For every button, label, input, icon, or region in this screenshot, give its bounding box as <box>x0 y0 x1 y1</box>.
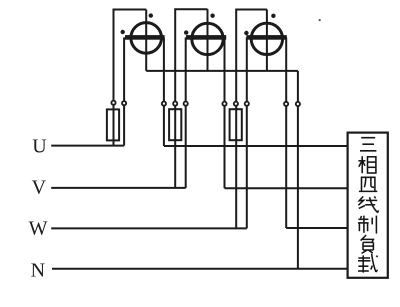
wire: neutral bus joining voltage coils of M1 M2 M3 <box>146 70 298 72</box>
wire: M2 bar left tap down through terminal b3 to V line <box>185 37 187 188</box>
wire: hairpin into meter M1 top (from terminal a1) <box>114 10 147 102</box>
svg-text:U: U <box>32 136 47 158</box>
terminal a2 <box>122 101 126 105</box>
wire: V output line to load box <box>225 187 348 189</box>
load box outline <box>348 133 388 278</box>
wire: W phase line from label to fuse FU3 and terminal c3 <box>51 227 247 229</box>
load box text: char 三 <box>360 138 376 151</box>
terminal c1 <box>222 102 226 106</box>
load box text: char 四 <box>359 177 377 191</box>
polarity dot M1 left <box>121 30 125 34</box>
wire: fuse FU1 lead, terminal a1 through fuse to U line <box>113 101 115 146</box>
svg-text:W: W <box>29 217 48 239</box>
wire: fuse FU3 lead, terminal c2 through fuse to W line <box>235 101 237 228</box>
terminal b3 <box>184 102 188 106</box>
speck artifact <box>319 19 321 21</box>
load box text: char 负 <box>361 235 374 253</box>
meter M1 circle <box>131 23 162 54</box>
terminal b1 <box>162 102 166 106</box>
wire: V phase line from label to fuse FU2 and terminal b3 <box>51 187 186 189</box>
terminal n1 <box>296 102 300 106</box>
meter M2 current-coil bar <box>186 35 226 40</box>
load box text: char 相 <box>358 156 376 173</box>
wire: M1 bar left tap down through terminal a2 to U line <box>123 37 125 145</box>
wire: hairpin into meter M3 top (from terminal c2) <box>236 10 267 102</box>
load box text: char 线 <box>358 196 378 212</box>
load box text: char 载 <box>358 254 378 273</box>
terminal c2 <box>234 102 238 106</box>
meter M2 circle <box>192 23 223 54</box>
wire: M3 bar left tap down through terminal c3 to W line <box>246 37 248 228</box>
wire: meter M3 voltage-coil vertical (circle diameter, down to neutral bus) <box>266 10 268 71</box>
load box text: char 制 <box>358 216 376 234</box>
wire: W output line to load box <box>286 227 347 229</box>
wire: meter M1 voltage-coil vertical (circle diameter, down to neutral bus) <box>145 10 147 71</box>
terminal d1 <box>284 102 288 106</box>
terminal c3 <box>245 102 249 106</box>
wire: fuse FU2 lead, terminal b2 through fuse to V line <box>174 101 176 188</box>
meter M1 current-coil bar <box>125 35 165 40</box>
wire: N neutral line from label to load box <box>52 268 348 270</box>
fuse FU2 body <box>169 109 181 140</box>
wire: M1 bar right out down through terminal b1, U feed to load <box>163 37 165 146</box>
wire: U output line to load box <box>164 145 348 147</box>
meter M3 current-coil bar <box>246 35 286 40</box>
wire: meter M2 voltage-coil vertical (circle diameter, down to neutral bus) <box>207 9 209 71</box>
wire: U phase line from label to fuse FU1 and terminal a2 <box>51 145 124 147</box>
polarity dot M3 top <box>271 14 275 18</box>
terminal b2 <box>173 102 177 106</box>
svg-text:V: V <box>32 177 47 199</box>
wire: hairpin into meter M2 top (from terminal b2) <box>175 9 207 101</box>
terminal a1 <box>111 101 115 105</box>
polarity dot M2 left <box>184 30 188 34</box>
wire: M3 bar right out down through terminal d1, W feed to load <box>285 37 287 228</box>
polarity dot M3 left <box>244 31 248 35</box>
fuse FU1 body <box>107 109 119 140</box>
wire: M2 bar right out down through terminal c1, V feed to load <box>224 37 226 188</box>
polarity dot M2 top <box>210 14 214 18</box>
wire: neutral drop from bus through terminal n1 to N line <box>297 71 299 269</box>
polarity dot M1 top <box>149 13 153 17</box>
svg-text:N: N <box>31 260 45 282</box>
fuse FU3 body <box>230 109 242 140</box>
meter M3 circle <box>251 23 282 54</box>
